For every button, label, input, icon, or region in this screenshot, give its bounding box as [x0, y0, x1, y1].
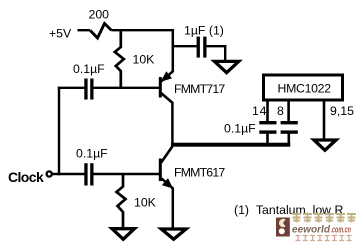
wire pin 8 stub: [287, 100, 290, 121]
label +5V: [49, 27, 72, 41]
transistor Q2 emitter: [161, 178, 173, 189]
pin 9,15: [330, 104, 354, 118]
ground (1uF): [215, 61, 239, 72]
capacitor under pin 8: [281, 121, 298, 144]
svg-text:FMMT717: FMMT717: [174, 82, 225, 96]
wire top rail to corner: [112, 29, 175, 31]
wire 1uF to ground: [207, 46, 226, 61]
value label 200: [89, 8, 110, 22]
wire pin 9,15 to ground: [323, 100, 326, 140]
wire pin 14 stub: [266, 100, 269, 121]
svg-text:8: 8: [277, 104, 284, 118]
svg-text:1µF (1): 1µF (1): [184, 24, 224, 38]
svg-text:0.1µF: 0.1µF: [73, 62, 105, 76]
note (1) Tantalum, low R: [234, 203, 343, 217]
svg-text:+5V: +5V: [49, 27, 72, 41]
label Clock: [8, 169, 44, 185]
wire left vertical: [58, 87, 60, 176]
svg-text:0.1µF: 0.1µF: [76, 147, 108, 161]
capacitor under pin 14: [259, 121, 276, 144]
value label 0.1uF lower: [76, 147, 108, 161]
pin 8: [277, 104, 284, 118]
label HMC1022: [278, 82, 332, 96]
svg-text:.com.cn: .com.cn: [331, 225, 352, 235]
value label 0.1uF right: [224, 121, 256, 135]
svg-text:HMC1022: HMC1022: [278, 82, 332, 96]
wire +5V to resistor: [78, 29, 91, 31]
wire vertical emitter feed: [172, 29, 175, 72]
svg-text:Clock: Clock: [8, 169, 44, 185]
ground (10K lower): [112, 229, 135, 240]
transistor Q1 emitter: [161, 71, 173, 82]
capacitor 0.1uF upper: [84, 79, 93, 100]
ground (Q2 emitter): [161, 229, 186, 239]
svg-text:14: 14: [252, 104, 267, 118]
value label 10K upper: [133, 53, 156, 67]
capacitor 0.1uF lower: [84, 163, 93, 185]
transistor Q1 collector: [161, 93, 173, 103]
node Clock terminal: [47, 171, 52, 176]
wire capacitor to NPN base: [93, 173, 159, 175]
IC U1 HMC1022: [264, 75, 343, 100]
value label 10K lower: [134, 196, 157, 210]
pin 14: [252, 104, 267, 118]
watermark chinese title glyphs: [292, 214, 356, 223]
wire upper base rail: [58, 87, 159, 89]
transistor Q2 FMMT617 base bar: [159, 159, 162, 182]
svg-text:10K: 10K: [134, 196, 157, 210]
label FMMT617: [174, 166, 225, 180]
value label 1uF (1): [184, 24, 224, 38]
resistor 10K lower: [117, 175, 126, 227]
watermark eeworld.com.cn: [292, 224, 351, 236]
transistor Q1 FMMT717 base bar: [159, 77, 162, 98]
svg-text:FMMT617: FMMT617: [174, 166, 225, 180]
wire output rail: [171, 143, 290, 147]
watermark slogan glyphs: [296, 236, 352, 241]
svg-text:9,15: 9,15: [330, 104, 354, 118]
resistor 200: [90, 24, 112, 39]
wire to 1uF capacitor: [172, 45, 197, 47]
wire Q1 collector to output node: [171, 102, 174, 147]
wire Clock to capacitor: [52, 173, 84, 175]
ground (pin 9,15): [314, 140, 336, 150]
svg-text:eeworld: eeworld: [292, 224, 331, 236]
capacitor 1uF: [197, 37, 207, 58]
label FMMT717: [174, 82, 225, 96]
svg-text:200: 200: [89, 8, 110, 22]
resistor 10K upper: [115, 31, 124, 89]
wire Q2 emitter to ground: [172, 188, 175, 229]
value label 0.1uF upper: [73, 62, 105, 76]
svg-text:10K: 10K: [133, 53, 156, 67]
svg-text:0.1µF: 0.1µF: [224, 121, 256, 135]
watermark logo: [276, 218, 290, 237]
transistor Q2 collector: [161, 146, 173, 163]
